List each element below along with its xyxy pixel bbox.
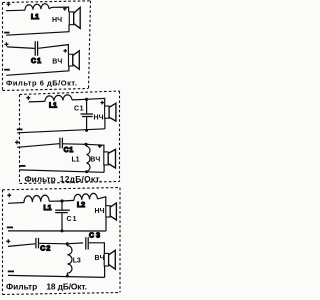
filter box 2 dashed frame — [20, 91, 120, 184]
terminal + input1 of 6dB filter — [7, 2, 11, 6]
speaker ВЧ (tweeter) — [52, 49, 79, 69]
speaker НЧ (woofer) — [95, 203, 117, 220]
terminal + input2 of 18dB filter — [6, 239, 10, 243]
svg-text:C1: C1 — [67, 216, 77, 223]
wire — [72, 98, 105, 106]
wire — [8, 244, 35, 247]
svg-text:ВЧ: ВЧ — [95, 255, 105, 262]
wire (minus rail lower) — [8, 275, 105, 277]
speaker НЧ (woofer) — [94, 101, 116, 122]
wire — [7, 47, 35, 49]
wire (minus rail upper) — [17, 129, 105, 133]
svg-text:НЧ: НЧ — [95, 208, 105, 215]
junction node — [61, 229, 64, 232]
junction node — [66, 275, 69, 278]
terminal + input2 of 12dB filter — [15, 140, 19, 144]
svg-text:С2: С2 — [40, 245, 50, 252]
capacitor C1 (shunt) — [74, 99, 93, 130]
capacitor C1 (high-pass series) — [60, 138, 63, 149]
inductor L1 (low-pass series) — [45, 95, 72, 102]
svg-text:Фильтр: Фильтр — [6, 282, 37, 292]
speaker ВЧ (tweeter) — [95, 250, 116, 269]
svg-text:Фильтр 6 дБ/Окт.: Фильтр 6 дБ/Окт. — [6, 79, 77, 88]
svg-text:L1: L1 — [44, 205, 52, 212]
wire — [29, 100, 45, 103]
junction node — [85, 98, 88, 101]
inductor L1 — [25, 4, 49, 10]
svg-text:C1: C1 — [74, 105, 84, 112]
svg-text:Фильтр: Фильтр — [25, 174, 56, 184]
terminal + input2 of 6dB filter — [5, 42, 9, 46]
terminal - input1 — [4, 32, 9, 34]
terminal - input2 — [8, 270, 14, 272]
svg-text:18 дБ/Окт.: 18 дБ/Окт. — [46, 282, 87, 292]
capacitor C1 — [35, 41, 37, 56]
svg-text:L2: L2 — [77, 202, 85, 209]
wire — [63, 143, 86, 146]
svg-text:12дБ/Окт.: 12дБ/Окт. — [60, 174, 102, 184]
wire (minus rail upper) — [8, 230, 106, 232]
wire — [86, 144, 104, 152]
capacitor C1 (shunt) — [55, 201, 76, 231]
terminal - input1 — [7, 226, 13, 228]
wire — [97, 197, 105, 206]
filter box 1 dashed frame — [3, 1, 91, 91]
terminal + input1 of 18dB filter — [7, 193, 11, 197]
junction node — [60, 199, 63, 202]
wire — [8, 202, 24, 205]
wire — [17, 144, 59, 148]
wire — [104, 266, 106, 277]
terminal - input2 — [4, 69, 10, 71]
wire — [105, 217, 107, 231]
svg-text:ВЧ: ВЧ — [52, 59, 62, 66]
wire — [89, 243, 105, 254]
junction node — [85, 129, 88, 132]
svg-text:L3: L3 — [73, 258, 81, 265]
wire — [49, 7, 69, 12]
speaker ВЧ (tweeter) — [90, 144, 115, 168]
wire — [103, 165, 105, 172]
speaker НЧ (woofer) — [52, 7, 80, 28]
wire — [67, 242, 83, 245]
svg-text:НЧ: НЧ — [52, 17, 62, 24]
wire — [6, 25, 69, 36]
wire (minus rail lower) — [19, 170, 104, 172]
wire — [49, 200, 62, 202]
wire — [104, 118, 106, 129]
junction node — [66, 242, 69, 245]
inductor L2 (series) — [74, 193, 97, 200]
terminal - input1 — [17, 128, 23, 130]
wire — [6, 66, 69, 75]
wire — [39, 242, 67, 245]
junction node — [84, 143, 87, 146]
capacitor C3 (series) — [86, 237, 88, 249]
terminal + input1 of 12dB filter — [26, 96, 30, 100]
svg-text:C1: C1 — [64, 147, 74, 154]
capacitor C2 (series) — [36, 238, 39, 249]
inductor L1 (shunt) — [72, 144, 90, 172]
inductor L3 (shunt) — [67, 244, 80, 276]
svg-text:С3: С3 — [89, 232, 100, 239]
svg-text:ВЧ: ВЧ — [90, 156, 100, 163]
junction node — [85, 170, 88, 173]
svg-text:С1: С1 — [31, 58, 41, 65]
filter box 3 dashed frame — [3, 188, 121, 295]
inductor L1 (series) — [24, 195, 49, 202]
wire — [38, 45, 68, 55]
terminal - input2 — [19, 165, 26, 167]
svg-text:L1: L1 — [31, 14, 39, 21]
svg-text:L1: L1 — [49, 103, 57, 110]
svg-text:L1: L1 — [72, 157, 80, 164]
wire — [62, 199, 74, 202]
wire — [6, 9, 25, 12]
svg-text:НЧ: НЧ — [94, 115, 104, 122]
